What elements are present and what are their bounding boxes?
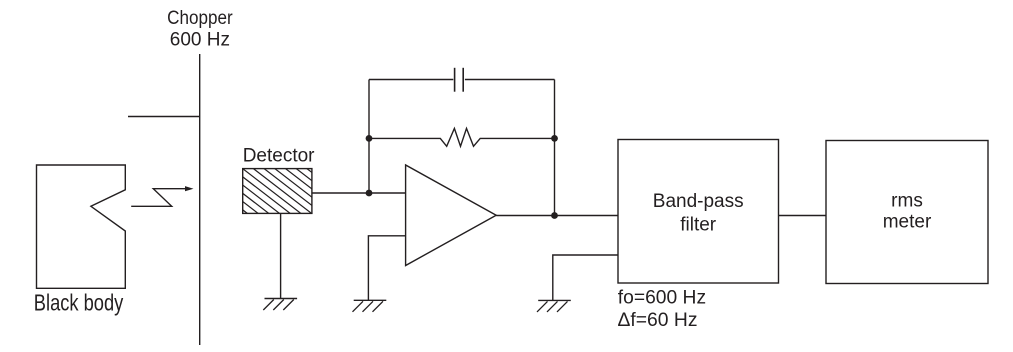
svg-text:600 Hz: 600 Hz bbox=[170, 30, 230, 51]
svg-text:filter: filter bbox=[680, 214, 717, 235]
svg-text:Δf=60 Hz: Δf=60 Hz bbox=[618, 310, 698, 331]
svg-text:Chopper: Chopper bbox=[167, 8, 233, 29]
svg-text:Black body: Black body bbox=[34, 289, 124, 315]
svg-text:fo=600 Hz: fo=600 Hz bbox=[618, 287, 706, 308]
svg-text:rms: rms bbox=[891, 190, 923, 211]
svg-text:meter: meter bbox=[883, 212, 932, 233]
svg-text:Band-pass: Band-pass bbox=[653, 191, 744, 212]
svg-text:Detector: Detector bbox=[243, 146, 315, 167]
